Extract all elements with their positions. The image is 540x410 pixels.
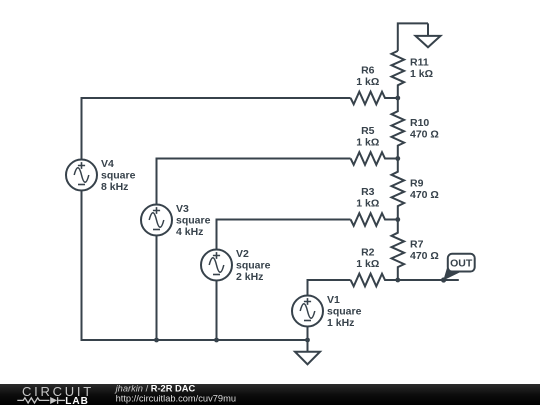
ground top bbox=[416, 23, 441, 47]
node rail junction 1 bbox=[154, 338, 159, 343]
logo CIRCUIT LAB bbox=[17, 384, 94, 407]
svg-text:R9: R9 bbox=[410, 178, 424, 190]
wire R11 top to ground bbox=[398, 23, 428, 51]
svg-text:LAB: LAB bbox=[65, 396, 89, 405]
svg-text:V3: V3 bbox=[176, 203, 189, 215]
svg-text:jharkin / R-2R DAC: jharkin / R-2R DAC bbox=[114, 384, 196, 394]
svg-text:R3: R3 bbox=[361, 186, 375, 198]
svg-text:1 kΩ: 1 kΩ bbox=[356, 76, 379, 88]
svg-text:R7: R7 bbox=[410, 239, 424, 251]
net flag OUT bbox=[443, 254, 474, 281]
svg-text:470 Ω: 470 Ω bbox=[410, 250, 439, 262]
node chain junction 1 bbox=[395, 96, 400, 101]
wire V3 top bbox=[157, 159, 351, 205]
resistor R5 bbox=[351, 125, 398, 165]
svg-text:4 kHz: 4 kHz bbox=[176, 226, 203, 238]
ground bottom bbox=[295, 340, 320, 364]
node chain junction 3 bbox=[395, 217, 400, 222]
svg-text:R11: R11 bbox=[410, 57, 429, 69]
node chain junction 2 bbox=[395, 156, 400, 161]
svg-text:V1: V1 bbox=[327, 294, 340, 306]
voltage source V2 bbox=[201, 248, 271, 283]
svg-text:square: square bbox=[176, 215, 211, 227]
svg-text:2 kHz: 2 kHz bbox=[236, 271, 263, 283]
wire V1 bottom bbox=[307, 327, 309, 341]
svg-text:470 Ω: 470 Ω bbox=[410, 129, 439, 141]
resistor R9 bbox=[392, 159, 439, 220]
svg-text:R6: R6 bbox=[361, 65, 375, 77]
svg-text:R5: R5 bbox=[361, 125, 375, 137]
node chain junction 4 bbox=[395, 278, 400, 283]
voltage source V1 bbox=[292, 294, 362, 329]
wire V4 top bbox=[82, 98, 351, 160]
svg-text:V4: V4 bbox=[101, 158, 114, 170]
wire OUT stub bbox=[398, 279, 459, 281]
resistor R3 bbox=[351, 186, 398, 226]
resistor R2 bbox=[351, 247, 398, 287]
footer text bbox=[114, 384, 236, 404]
resistor R7 bbox=[392, 220, 439, 281]
svg-text:R2: R2 bbox=[361, 247, 375, 259]
wire V3 bottom bbox=[156, 236, 158, 341]
svg-text:8 kHz: 8 kHz bbox=[101, 181, 128, 193]
svg-text:1 kΩ: 1 kΩ bbox=[356, 137, 379, 149]
svg-text:square: square bbox=[236, 260, 271, 272]
wire V2 top bbox=[217, 220, 351, 250]
voltage source V3 bbox=[141, 203, 211, 238]
svg-text:OUT: OUT bbox=[450, 257, 473, 269]
wire V1 top bbox=[308, 280, 351, 296]
svg-text:http://circuitlab.com/cuv79mu: http://circuitlab.com/cuv79mu bbox=[116, 393, 236, 403]
svg-text:1 kΩ: 1 kΩ bbox=[356, 258, 379, 270]
node OUT anchor bbox=[441, 277, 446, 282]
wire V2 bottom bbox=[216, 281, 218, 341]
wire ground rail bbox=[82, 191, 308, 341]
svg-text:470 Ω: 470 Ω bbox=[410, 189, 439, 201]
node rail junction 2 bbox=[214, 338, 219, 343]
svg-text:square: square bbox=[101, 170, 136, 182]
svg-text:square: square bbox=[327, 306, 362, 318]
voltage source V4 bbox=[66, 158, 136, 193]
svg-text:1 kΩ: 1 kΩ bbox=[356, 198, 379, 210]
node rail junction 3 bbox=[305, 338, 310, 343]
svg-text:V2: V2 bbox=[236, 248, 249, 260]
svg-text:1 kΩ: 1 kΩ bbox=[410, 68, 433, 80]
svg-text:R10: R10 bbox=[410, 117, 429, 129]
resistor R11 bbox=[392, 51, 434, 98]
resistor R6 bbox=[351, 65, 398, 105]
resistor R10 bbox=[392, 98, 439, 159]
svg-text:1 kHz: 1 kHz bbox=[327, 317, 354, 329]
